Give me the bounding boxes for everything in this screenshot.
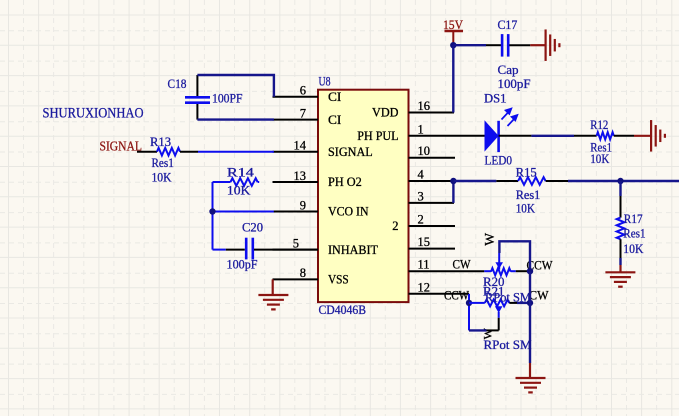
net label SIGNAL bbox=[100, 139, 143, 154]
label C17 Cap bbox=[498, 63, 519, 77]
svg-text:1: 1 bbox=[418, 122, 424, 136]
label R17 Res1 bbox=[623, 227, 645, 241]
pin 16 (VDD) bbox=[372, 99, 454, 120]
svg-text:13: 13 bbox=[294, 169, 307, 183]
svg-text:CCW: CCW bbox=[444, 289, 469, 303]
label R17 10K bbox=[623, 242, 643, 256]
pin 15 bbox=[409, 235, 456, 249]
svg-text:Res1: Res1 bbox=[152, 156, 174, 170]
svg-text:DS1: DS1 bbox=[484, 92, 507, 106]
svg-text:SIGNAL: SIGNAL bbox=[100, 139, 143, 154]
potentiometer R21 bbox=[469, 300, 509, 318]
junction pin 4 node bbox=[450, 178, 456, 184]
svg-text:10: 10 bbox=[418, 144, 431, 158]
pin 12 bbox=[409, 280, 470, 294]
svg-text:6: 6 bbox=[300, 84, 306, 98]
designator U8 bbox=[319, 75, 331, 89]
svg-text:9: 9 bbox=[300, 198, 306, 212]
svg-text:SIGNAL: SIGNAL bbox=[328, 145, 373, 159]
wire R20 right lead bbox=[516, 270, 530, 272]
wire pin 4 junction down to pin 3 bbox=[452, 181, 454, 203]
svg-text:CI: CI bbox=[328, 113, 341, 127]
svg-text:U8: U8 bbox=[319, 75, 331, 89]
op-amp U8 body (CD4046B) bbox=[318, 90, 409, 302]
wire to C20 bbox=[213, 249, 226, 251]
LED DS1 bbox=[485, 109, 532, 153]
svg-text:8: 8 bbox=[300, 266, 306, 280]
svg-text:100pF: 100pF bbox=[498, 77, 531, 91]
wire LED to R12 bbox=[531, 135, 574, 137]
svg-text:INHABIT: INHABIT bbox=[328, 243, 378, 257]
capacitor C20 bbox=[226, 238, 318, 260]
label C17 bbox=[498, 18, 518, 32]
svg-text:C18: C18 bbox=[168, 77, 187, 91]
junction R21 CCW bbox=[466, 300, 472, 306]
svg-text:15V: 15V bbox=[443, 18, 463, 32]
value label CD4046B bbox=[319, 303, 367, 317]
svg-text:10K: 10K bbox=[623, 242, 643, 256]
label R20 W bbox=[482, 233, 497, 246]
resistor R13 bbox=[137, 148, 198, 156]
pin 3 bbox=[409, 189, 455, 203]
power port 15V bbox=[443, 18, 463, 45]
svg-text:Res1: Res1 bbox=[516, 188, 541, 202]
pin 6 (CI) bbox=[273, 84, 342, 104]
capacitor C17 bbox=[486, 34, 530, 57]
svg-text:R12: R12 bbox=[590, 118, 608, 132]
label R12 Res1 bbox=[590, 141, 612, 155]
svg-text:R15: R15 bbox=[516, 166, 537, 180]
svg-text:2: 2 bbox=[392, 219, 398, 233]
label R21 bbox=[483, 285, 505, 299]
pin 4 bbox=[409, 168, 453, 182]
wire R14 branch vertical bbox=[212, 182, 214, 250]
junction R20 CCW bbox=[527, 268, 533, 274]
svg-text:C17: C17 bbox=[498, 18, 518, 32]
label R14 10K bbox=[227, 184, 251, 198]
svg-text:Res1: Res1 bbox=[623, 227, 645, 241]
svg-text:R14: R14 bbox=[227, 166, 255, 180]
pin 14 (SIGNAL) bbox=[273, 139, 373, 159]
label C20 100pF bbox=[227, 258, 258, 272]
svg-text:7: 7 bbox=[300, 106, 306, 120]
svg-text:CD4046B: CD4046B bbox=[319, 303, 367, 317]
svg-text:LED0: LED0 bbox=[485, 154, 513, 168]
wire 15V to pin 16 bbox=[452, 45, 454, 112]
svg-text:11: 11 bbox=[418, 258, 430, 272]
pin 5 (INHABIT) bbox=[273, 236, 379, 256]
ground at R17 bbox=[605, 272, 635, 286]
junction at R14/pin9 bbox=[209, 208, 215, 214]
svg-text:4: 4 bbox=[418, 168, 425, 182]
wire R21 right lead bbox=[509, 302, 530, 304]
svg-text:12: 12 bbox=[418, 280, 431, 294]
svg-text:C20: C20 bbox=[242, 221, 263, 235]
svg-text:VDD: VDD bbox=[372, 106, 399, 120]
label C20 bbox=[242, 221, 263, 235]
wire C18 top to pin 6 bbox=[197, 75, 274, 97]
label R17 bbox=[624, 212, 643, 226]
wire R13 to pin 14 bbox=[198, 151, 274, 153]
svg-text:CI: CI bbox=[328, 90, 341, 104]
ground at pin 8 bbox=[258, 279, 288, 309]
potentiometer R20 bbox=[484, 253, 516, 275]
resistor R12 bbox=[574, 132, 634, 139]
wire R15 to right edge bbox=[568, 180, 679, 182]
label R13 10K bbox=[152, 171, 172, 185]
svg-text:16: 16 bbox=[418, 99, 431, 113]
pin 9 (VCO IN) bbox=[273, 198, 369, 218]
junction 15V node bbox=[450, 42, 456, 48]
label R12 10K bbox=[590, 152, 609, 166]
label R20 bbox=[483, 275, 505, 289]
label R21 W bbox=[481, 328, 495, 340]
label DS1 bbox=[484, 92, 507, 106]
svg-text:VSS: VSS bbox=[328, 273, 349, 287]
svg-text:W: W bbox=[482, 233, 497, 246]
label C17 100pF bbox=[498, 77, 531, 91]
pin 11 bbox=[409, 258, 485, 272]
net label SHURUXIONHAO bbox=[43, 105, 144, 121]
svg-text:10K: 10K bbox=[152, 171, 172, 185]
junction R17 node bbox=[617, 178, 623, 184]
wire to pin 9 bbox=[213, 211, 274, 213]
svg-text:14: 14 bbox=[294, 139, 307, 153]
svg-text:VCO IN: VCO IN bbox=[328, 205, 369, 219]
earth ground at C17 bbox=[530, 29, 559, 61]
svg-text:10K: 10K bbox=[590, 152, 609, 166]
svg-text:R17: R17 bbox=[624, 212, 643, 226]
svg-text:PH PUL: PH PUL bbox=[357, 129, 398, 143]
svg-text:PH O2: PH O2 bbox=[328, 175, 362, 189]
label R14 bbox=[227, 166, 255, 180]
svg-text:3: 3 bbox=[418, 189, 424, 203]
label R20 CCW bbox=[527, 258, 553, 272]
svg-text:2: 2 bbox=[418, 213, 424, 227]
label R15 10K bbox=[516, 202, 535, 216]
wire pin 4 to R15 bbox=[453, 180, 496, 182]
svg-text:CW: CW bbox=[453, 257, 471, 271]
wire R21 wiper loop bbox=[469, 318, 499, 331]
junction R21 CW bbox=[527, 300, 533, 306]
svg-text:100PF: 100PF bbox=[212, 92, 243, 106]
svg-text:10K: 10K bbox=[227, 184, 251, 198]
resistor R14 bbox=[213, 178, 260, 186]
resistor R17 bbox=[617, 181, 625, 272]
svg-text:Cap: Cap bbox=[498, 63, 519, 77]
svg-text:15: 15 bbox=[418, 235, 431, 249]
pin 10 bbox=[409, 144, 456, 158]
label C18 bbox=[168, 77, 187, 91]
label LED0 bbox=[485, 154, 513, 168]
label R21 CW bbox=[529, 289, 549, 303]
label R12 bbox=[590, 118, 608, 132]
svg-text:5: 5 bbox=[293, 236, 299, 250]
capacitor C18 bbox=[185, 75, 210, 120]
label R21 RPot SM 2 bbox=[484, 338, 532, 352]
label R15 bbox=[516, 166, 537, 180]
svg-text:100pF: 100pF bbox=[227, 258, 258, 272]
pin 1 (PH PUL) bbox=[357, 122, 484, 143]
wire 15V to C17 bbox=[453, 44, 486, 46]
pin 8 (VSS) bbox=[273, 266, 349, 286]
wire C18 bottom to pin 7 bbox=[197, 118, 274, 120]
label R21 CCW bbox=[444, 289, 469, 303]
svg-text:SHURUXIONHAO: SHURUXIONHAO bbox=[43, 105, 144, 121]
ground at potentiometers bbox=[516, 378, 546, 392]
label C18 100PF bbox=[212, 92, 243, 106]
pin 13 (PH O2) bbox=[273, 169, 362, 189]
label R15 Res1 bbox=[516, 188, 541, 202]
wire pots to ground bbox=[529, 271, 531, 378]
earth ground at R12 bbox=[634, 120, 665, 152]
label R20 CW bbox=[453, 257, 471, 271]
resistor R15 bbox=[496, 177, 568, 185]
label R21 RPot SM bbox=[485, 291, 531, 305]
label R13 bbox=[150, 135, 171, 149]
svg-text:RPot SM: RPot SM bbox=[484, 338, 532, 352]
wire pin 12 drop bbox=[468, 294, 470, 331]
label R13 Res1 bbox=[152, 156, 174, 170]
pin 7 (CI) bbox=[273, 106, 342, 126]
wire R20 wiper loop bbox=[499, 241, 530, 271]
pin 2 (2) bbox=[392, 213, 455, 234]
svg-text:10K: 10K bbox=[516, 202, 535, 216]
svg-text:R13: R13 bbox=[150, 135, 171, 149]
